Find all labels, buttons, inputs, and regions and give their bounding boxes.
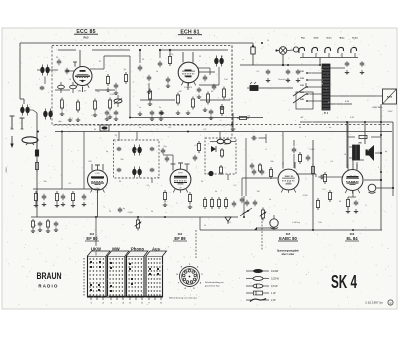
wire c5 drop xyxy=(148,83,150,90)
cathode resistor R18 xyxy=(189,192,191,195)
left bank lower a xyxy=(32,219,34,221)
filter capacitor C54 xyxy=(297,69,299,71)
svg-text:Schalterstellung wie: Schalterstellung wie xyxy=(205,281,224,284)
wire bottom-left rail xyxy=(31,216,238,218)
wire right vertical 365 xyxy=(364,122,366,144)
wire EABC feed xyxy=(282,132,284,166)
svg-text:B250: B250 xyxy=(387,97,393,99)
resistor R21 xyxy=(211,197,213,200)
bank capacitor Cd xyxy=(62,194,64,197)
switch block contact dots xyxy=(89,258,90,259)
capacitor C15 xyxy=(194,155,196,158)
wire osc link xyxy=(198,67,210,69)
bank resistor Ra xyxy=(35,191,37,194)
left bank lower b xyxy=(39,221,41,223)
svg-text:Röhrenfassung von unten gez.: Röhrenfassung von unten gez. xyxy=(169,297,198,300)
ground under C8 xyxy=(204,108,206,111)
tube ECC85 triode xyxy=(73,67,92,86)
wire EABC grid xyxy=(242,177,278,179)
ground under ECH81 xyxy=(187,111,189,114)
resistor R4 xyxy=(109,98,111,101)
wire rectifier feed xyxy=(340,95,376,97)
wire mid rail upper xyxy=(130,117,263,119)
capacitor C8 xyxy=(204,75,206,78)
transformer secondary leads xyxy=(330,67,345,69)
capacitor C20 xyxy=(233,201,235,204)
EF89 electrodes xyxy=(174,176,187,178)
capacitor C18 xyxy=(166,156,168,159)
ground under R6b xyxy=(107,88,109,91)
resistor R1 xyxy=(61,98,63,101)
svg-text:EL 84: EL 84 xyxy=(346,236,358,241)
IF transformer box 2 xyxy=(205,138,236,174)
ratio det diode xyxy=(211,146,216,152)
detector parts cluster xyxy=(299,152,301,155)
svg-text:EF 89: EF 89 xyxy=(174,236,186,241)
resistor R6b xyxy=(107,74,109,77)
capacitor C7 xyxy=(167,77,169,80)
wire fm box top row xyxy=(58,49,76,51)
svg-text:0,5M log: 0,5M log xyxy=(292,222,300,224)
volume pot P2 xyxy=(262,208,264,211)
jack circle right xyxy=(368,184,376,192)
IF2 capacitor xyxy=(251,163,253,166)
wire EABC plate xyxy=(296,173,316,175)
dial lamp La1 xyxy=(279,47,287,55)
mains switch drop xyxy=(282,55,284,66)
svg-text:EABC 80: EABC 80 xyxy=(279,236,297,241)
resistor R3 xyxy=(94,99,96,102)
svg-text:250V: 250V xyxy=(351,182,356,184)
mains transformer Tr1 core xyxy=(322,64,330,110)
tube EF89 xyxy=(170,169,191,190)
fuse F1 xyxy=(251,47,255,54)
wire fm box mid rows xyxy=(55,89,70,91)
tube EF89 pin stubs xyxy=(172,164,174,171)
svg-text:240Ω: 240Ω xyxy=(6,167,8,173)
cathode resistor R17 xyxy=(164,190,166,193)
svg-text:1M: 1M xyxy=(224,144,227,146)
wire to switch UKW xyxy=(95,218,97,247)
ground row fm 2 xyxy=(139,112,141,115)
svg-text:~220V 50Hz: ~220V 50Hz xyxy=(371,107,382,109)
resistor R6c xyxy=(125,72,127,75)
grid resistor R41 xyxy=(329,190,331,193)
wire ECC85 plate xyxy=(90,68,104,70)
resistor box r2 xyxy=(237,117,240,119)
svg-text:2.10.1957 du: 2.10.1957 du xyxy=(365,301,383,305)
oscillator coil L2 xyxy=(214,58,218,64)
ground under C6b xyxy=(115,91,117,94)
filter capacitor C52 xyxy=(267,69,269,71)
cathode resistor R40 xyxy=(347,197,349,200)
capacitor C4 xyxy=(139,65,141,68)
capacitor C21 xyxy=(241,197,243,200)
wire EL84 cathode xyxy=(352,191,354,198)
left bank rail xyxy=(33,188,100,190)
tube EABC80 pin stubs xyxy=(282,162,284,169)
wire antenna feed vertical xyxy=(36,131,38,217)
svg-text:0,5M: 0,5M xyxy=(128,212,133,214)
svg-text:6,3V: 6,3V xyxy=(350,117,355,119)
capacitor C1 xyxy=(58,59,60,62)
capacitor C6b xyxy=(115,83,117,86)
rectifier B250C75 xyxy=(383,89,397,104)
mains transformer lamination lines xyxy=(323,66,330,68)
plate resistor R30 xyxy=(270,167,272,170)
tube IF top cap xyxy=(97,165,99,170)
wire EF89 grid feeds xyxy=(172,155,174,164)
volume potentiometer P1 xyxy=(137,218,139,221)
wire antenna jog xyxy=(20,98,24,100)
wire IF2 feeds xyxy=(219,132,221,140)
svg-text:Spannungsangaben: Spannungsangaben xyxy=(277,251,300,253)
svg-text:Q: Q xyxy=(390,302,392,305)
trimmer capacitor T1 xyxy=(58,85,65,89)
capacitor 4u mark xyxy=(119,207,121,209)
svg-text:BRAUN: BRAUN xyxy=(37,271,62,281)
svg-text:Ant: Ant xyxy=(58,120,62,123)
tube ECH81 IF section xyxy=(88,170,108,190)
junction dots xyxy=(37,131,39,133)
tube EABC80 xyxy=(278,169,299,190)
IF1 trim cap 4 xyxy=(151,168,153,170)
ground x233 xyxy=(232,113,234,127)
wire EL84 plate to rail xyxy=(364,179,381,181)
antenna loop symbol xyxy=(22,137,38,143)
svg-text:Aus: Aus xyxy=(152,247,161,252)
resistor R2 xyxy=(77,100,79,103)
jack wires xyxy=(256,227,275,229)
capacitor C34 xyxy=(293,147,295,150)
resistor R5 xyxy=(149,89,151,92)
svg-text:Blau: Blau xyxy=(340,38,345,40)
smoothing capacitor C51 xyxy=(361,61,363,63)
trimmer capacitor T2 xyxy=(70,85,77,89)
wire EL84 grid xyxy=(327,176,343,178)
capacitor C17 xyxy=(162,148,164,151)
svg-text:UKW: UKW xyxy=(91,247,101,252)
screen resistor R42 xyxy=(317,198,319,201)
svg-text:Tr 1: Tr 1 xyxy=(324,112,329,115)
resistor row r1 xyxy=(221,104,223,107)
ground under C7 xyxy=(167,84,169,87)
svg-text:Phono: Phono xyxy=(131,247,144,252)
fm input filter coil xyxy=(40,67,44,73)
dashed wire to socket xyxy=(195,230,197,258)
ratio det coil xyxy=(217,139,224,143)
bank capacitor Cf xyxy=(83,194,85,197)
capacitor C6 xyxy=(159,61,161,64)
svg-text:1/16W: 1/16W xyxy=(271,270,279,273)
antenna dipole 2 xyxy=(21,118,23,129)
svg-text:SK 4: SK 4 xyxy=(331,271,357,292)
IF2 resistor xyxy=(220,165,222,167)
wire right vertical main xyxy=(380,104,382,230)
selector bottom bus xyxy=(302,53,304,58)
tube ECH81 pin stubs xyxy=(182,52,184,62)
capacitor C31 xyxy=(253,169,255,172)
ground R18 xyxy=(189,205,191,208)
cathode capacitor C40 xyxy=(355,200,357,202)
filter capacitor C53 xyxy=(287,69,289,71)
smoothing capacitor C50 xyxy=(346,61,348,63)
coupling capacitor C41 xyxy=(318,176,321,178)
ground under R40 xyxy=(347,209,349,212)
svg-text:Schw: Schw xyxy=(352,38,358,40)
wire B+ distribution rail xyxy=(55,131,392,133)
transformer primary taps xyxy=(307,72,322,74)
tube ECH81 electrodes xyxy=(185,70,192,72)
resistor wattage legend xyxy=(246,270,253,272)
svg-text:2 W: 2 W xyxy=(271,299,276,302)
svg-text:EL 84: EL 84 xyxy=(350,175,357,178)
resistor R22 xyxy=(218,197,220,200)
mains switch xyxy=(250,86,258,91)
ground R17 xyxy=(164,203,166,206)
scan speckle (decorative) xyxy=(130,70,133,73)
antenna input coil La xyxy=(20,107,24,113)
capacitor row c1 xyxy=(106,110,108,112)
wire speaker bottom rail xyxy=(356,162,358,169)
IF1 trim cap 3 xyxy=(118,168,120,170)
tone capacitor C33 xyxy=(254,200,256,203)
ground at R1 xyxy=(61,112,63,115)
wire pot drop xyxy=(137,228,139,230)
wire bank vertical a xyxy=(61,132,63,190)
capacitor row c4 xyxy=(160,110,162,112)
FM tuner dashed box xyxy=(52,46,232,126)
dial lamp La2 xyxy=(293,47,298,52)
capacitor row c3 xyxy=(151,110,153,112)
resistor R8 xyxy=(192,97,194,100)
wire diag tone xyxy=(240,208,252,216)
wire right vertical far xyxy=(392,122,394,196)
switch block contact bars xyxy=(90,261,92,268)
tube ECC85 pin stubs xyxy=(79,50,81,67)
wire top-right rail xyxy=(300,121,393,123)
wire speaker rail xyxy=(347,136,355,138)
svg-text:250V: 250V xyxy=(388,111,393,113)
IF transformer box 1 xyxy=(114,140,160,178)
tube EL84 anode wire xyxy=(352,160,354,170)
svg-text:0,3M: 0,3M xyxy=(310,149,315,151)
svg-text:EF 80: EF 80 xyxy=(86,236,98,241)
EL84 electrodes xyxy=(347,176,359,178)
tube EL84 xyxy=(342,170,363,191)
tube1 electrodes xyxy=(91,176,104,178)
resistor in antenna lead xyxy=(36,160,38,163)
svg-text:Grün: Grün xyxy=(326,38,332,40)
svg-text:6,3V: 6,3V xyxy=(345,101,350,103)
ratio detector diode wires xyxy=(245,138,247,196)
capacitor C2 xyxy=(66,68,68,71)
bank drop wire xyxy=(37,188,39,190)
capacitor row c2 xyxy=(115,110,117,112)
wire bank vertical b xyxy=(83,132,85,190)
svg-text:1M: 1M xyxy=(179,91,182,93)
switch block panels xyxy=(88,256,107,297)
svg-text:1 W: 1 W xyxy=(271,292,276,295)
capacitor C9 xyxy=(213,84,215,87)
svg-text:Netzschalter: Netzschalter xyxy=(278,78,290,81)
resistor R23 xyxy=(225,197,227,200)
wire osc mid xyxy=(199,84,219,86)
headphone jack xyxy=(270,219,278,227)
wire EL84 feed xyxy=(312,140,314,230)
svg-text:über / unter: über / unter xyxy=(282,253,295,256)
wire link mid xyxy=(129,56,131,117)
IF1 trim cap 1 xyxy=(118,147,120,149)
voltage switch contacts xyxy=(293,87,306,96)
antenna arrow xyxy=(11,136,13,146)
wire det to pot xyxy=(199,217,201,230)
ground row fm 1 xyxy=(69,118,71,121)
switch block bottom pins xyxy=(90,297,92,300)
resistor above speaker xyxy=(358,136,360,138)
tube pin stubs b1 xyxy=(91,164,93,171)
svg-text:RADIO: RADIO xyxy=(38,284,58,289)
diode symbol xyxy=(225,217,231,222)
tube ECH81 xyxy=(178,62,199,83)
tone capacitor C32 xyxy=(246,200,248,203)
antenna coil L1 xyxy=(43,111,47,117)
tuning capacitor CV1 xyxy=(114,99,122,103)
capacitor C30 xyxy=(261,169,263,172)
wire fuse drop xyxy=(252,43,254,47)
wire lamp rail xyxy=(240,64,320,66)
transformer primary feed xyxy=(319,58,321,65)
svg-text:0,5M: 0,5M xyxy=(303,195,308,197)
wire speaker top xyxy=(353,134,365,136)
svg-text:Gelb: Gelb xyxy=(314,38,320,40)
tube EF89 top cap xyxy=(180,163,182,169)
capacitor C5 xyxy=(148,75,150,78)
antenna dipole 1 xyxy=(11,116,13,129)
wire top rail xyxy=(20,42,253,44)
ground under C40 xyxy=(355,209,357,212)
svg-text:184, 4 8V: 184, 4 8V xyxy=(78,91,87,93)
svg-text:Rot: Rot xyxy=(301,37,305,40)
svg-text:0,25 W: 0,25 W xyxy=(271,278,280,281)
tuning gang section xyxy=(100,125,109,131)
wire bottom rail xyxy=(200,229,382,231)
bank resistor Rc xyxy=(56,191,58,194)
output transformer Tr2 xyxy=(353,145,356,160)
resistor R10 xyxy=(223,87,225,90)
resistor R20 xyxy=(204,197,206,200)
svg-text:1M: 1M xyxy=(257,191,260,193)
svg-text:EABC 80: EABC 80 xyxy=(285,175,294,178)
switch block bottom band xyxy=(88,296,163,298)
voltage selector contact row xyxy=(299,47,305,53)
left bank lower d xyxy=(55,221,57,223)
wire ratio det drop xyxy=(243,196,245,217)
resistor R7 xyxy=(177,93,179,96)
svg-text:Rö3: Rö3 xyxy=(84,36,89,40)
ground osc xyxy=(198,95,200,98)
svg-text:0,5 W: 0,5 W xyxy=(271,285,278,288)
wire chassis dashed rail xyxy=(55,124,391,126)
tube ECC85 electrodes xyxy=(80,70,86,72)
IF1 coil top xyxy=(132,147,136,153)
svg-text:Rö1: Rö1 xyxy=(188,36,193,40)
svg-text:gezeichnet: Aus: gezeichnet: Aus xyxy=(205,285,220,288)
grid cap lead xyxy=(97,190,99,217)
svg-text:176V: 176V xyxy=(95,173,100,175)
wire caps to top xyxy=(139,50,141,63)
ground under R5 xyxy=(149,102,151,105)
bank capacitor Cb xyxy=(43,194,45,197)
switch block left dashed edge xyxy=(83,258,85,296)
resistor R9 xyxy=(207,92,209,95)
wire right vertical 347 xyxy=(346,122,348,168)
wire left drop xyxy=(19,43,21,99)
svg-text:MW: MW xyxy=(112,247,119,252)
resistor R31 xyxy=(312,164,314,167)
loudspeaker LS xyxy=(366,145,375,161)
wire ECC85 grid xyxy=(66,70,74,72)
bank resistor Re xyxy=(72,191,74,194)
svg-text:0,5M: 0,5M xyxy=(110,94,115,96)
wire speaker sec xyxy=(375,152,381,154)
IF1 coil bottom xyxy=(132,169,136,175)
resistor R6 xyxy=(169,54,171,57)
tube socket diagram xyxy=(180,267,200,287)
capacitor row c5 xyxy=(210,109,212,111)
antenna matching blob xyxy=(35,150,38,156)
dashed box edge right xyxy=(231,46,233,139)
svg-text:EF89: EF89 xyxy=(178,173,183,175)
wire EL84 pin up xyxy=(347,122,349,164)
dashed wire to block xyxy=(261,218,263,250)
wire IF1 feeds xyxy=(118,132,120,142)
IF1 trim cap 2 xyxy=(151,147,153,149)
tube EL84 pin stubs xyxy=(347,164,349,170)
ground at R3 xyxy=(94,113,96,116)
left bank lower c xyxy=(47,219,49,221)
screen resistor R15 xyxy=(198,141,200,144)
resistor R32 xyxy=(324,172,326,175)
